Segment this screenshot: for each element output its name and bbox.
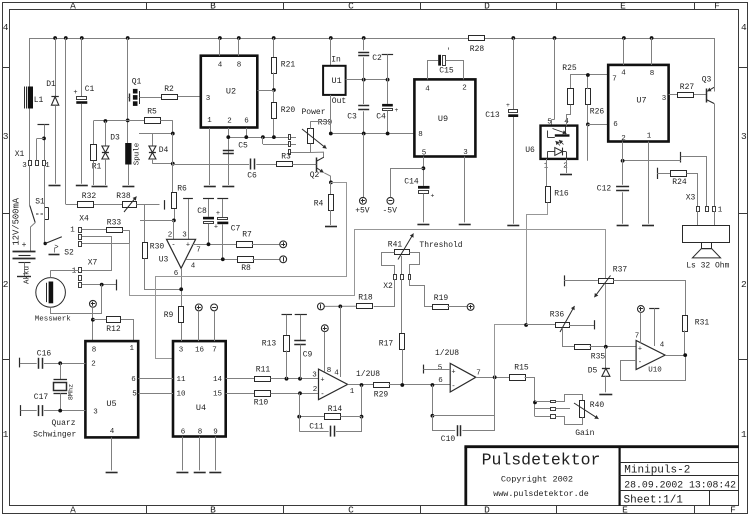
ground below C13 xyxy=(507,225,519,227)
svg-text:4: 4 xyxy=(425,86,430,94)
capacitor C15 loop xyxy=(428,61,439,80)
supply terminal -5V xyxy=(387,197,394,204)
svg-text:3: 3 xyxy=(662,95,667,103)
supply terminal U4 pin7 xyxy=(211,304,218,311)
svg-text:8: 8 xyxy=(237,62,242,70)
wire U2 pin4 to rail xyxy=(219,38,221,56)
svg-text:4: 4 xyxy=(660,342,665,350)
wire X4 pin2 to X7 pin1 loop xyxy=(82,237,112,271)
capacitor C7 electrolytic xyxy=(217,198,228,200)
ground below R1 D3 xyxy=(92,186,108,188)
wire U6 pin1 down to R16 xyxy=(546,159,548,187)
op-amp U8b xyxy=(450,363,476,392)
svg-text:7: 7 xyxy=(612,76,617,84)
svg-text:3: 3 xyxy=(182,232,187,240)
svg-text:7: 7 xyxy=(212,347,217,355)
battery Akku cells xyxy=(13,251,36,253)
svg-text:D1: D1 xyxy=(46,80,56,89)
svg-text:C4: C4 xyxy=(376,113,386,122)
quartz crystal 8MHz xyxy=(60,363,62,379)
svg-text:28.09.2002 13:08:42: 28.09.2002 13:08:42 xyxy=(624,479,736,490)
U6 phototransistor xyxy=(547,131,549,138)
resistor R7 xyxy=(237,242,253,248)
node R6/R30/U3 pin2 xyxy=(172,219,176,223)
svg-text:4: 4 xyxy=(3,22,9,33)
terminal circle plus R19 xyxy=(467,304,474,311)
wire U8b output up to R36 net xyxy=(495,325,527,378)
wire R12 to U5 pin1 xyxy=(121,320,134,342)
feedback loop with C10 xyxy=(432,385,434,416)
IC U5 xyxy=(85,341,138,437)
ground below C14 xyxy=(417,224,429,226)
svg-text:R29: R29 xyxy=(374,391,389,400)
wire R30 bottom to U3 output node xyxy=(145,259,182,290)
wire X4 pin1 to R33 xyxy=(82,229,107,231)
svg-text:2: 2 xyxy=(563,163,568,171)
stub bar right of R36 xyxy=(569,325,594,327)
wire U10 output xyxy=(665,355,685,357)
svg-text:+: + xyxy=(22,241,27,250)
wire gate rail down to Spule xyxy=(127,120,129,143)
svg-text:Minipuls-2: Minipuls-2 xyxy=(624,464,690,476)
resistor R2 xyxy=(162,95,178,100)
svg-text:S1: S1 xyxy=(35,198,45,207)
svg-text:7: 7 xyxy=(196,247,201,255)
resistor R3 xyxy=(277,162,293,167)
frame column dividers top margin xyxy=(146,3,148,10)
svg-text:C8: C8 xyxy=(197,207,207,216)
svg-text:C10: C10 xyxy=(441,435,456,444)
svg-text:5: 5 xyxy=(132,391,137,399)
wire U2 pin1 to ground xyxy=(209,128,211,185)
speaker Ls 32 Ohm wiring xyxy=(697,211,699,225)
svg-text:16: 16 xyxy=(195,347,205,355)
svg-text:Gain: Gain xyxy=(575,429,594,438)
supply terminal U10 xyxy=(638,306,645,313)
svg-text:8: 8 xyxy=(327,367,332,375)
svg-text:4: 4 xyxy=(334,370,339,378)
svg-text:+: + xyxy=(186,242,190,250)
svg-text:R6: R6 xyxy=(177,185,187,194)
svg-text:-: - xyxy=(638,359,642,367)
svg-text:R28: R28 xyxy=(470,45,485,54)
wire U1 out down to rail xyxy=(330,95,332,134)
svg-text:4: 4 xyxy=(218,62,223,70)
svg-text:Q3: Q3 xyxy=(702,76,712,85)
svg-text:-: - xyxy=(320,391,324,399)
svg-text:X1: X1 xyxy=(15,150,25,159)
svg-text:7: 7 xyxy=(476,370,481,378)
svg-text:6: 6 xyxy=(613,121,618,129)
svg-text:C14: C14 xyxy=(404,178,419,187)
terminal circle R8 xyxy=(280,256,287,263)
X1 antenna stub with bar xyxy=(38,124,50,126)
wire R37 to R31 xyxy=(613,281,685,316)
wire U5 pin4 to ground xyxy=(111,437,113,470)
ground below D5 xyxy=(599,394,612,396)
resistor R10 xyxy=(255,391,271,397)
svg-text:1: 1 xyxy=(350,388,355,396)
svg-text:X4: X4 xyxy=(79,215,89,224)
svg-text:R4: R4 xyxy=(314,200,324,209)
stub bar left of R37 xyxy=(564,275,566,286)
svg-text:R5: R5 xyxy=(147,108,157,117)
ground below R4 xyxy=(325,226,337,228)
wire R41 wiper to X2 pin2 xyxy=(401,256,403,275)
wire Q2 emitter long route to U4 xyxy=(156,183,347,359)
svg-text:R41: R41 xyxy=(388,241,403,250)
svg-text:-: - xyxy=(171,242,175,250)
svg-text:8: 8 xyxy=(198,429,203,437)
wire U2 pin2 down through C5 xyxy=(228,128,230,185)
svg-text:3: 3 xyxy=(312,372,317,380)
svg-text:X3: X3 xyxy=(686,194,696,203)
svg-text:+: + xyxy=(73,89,77,97)
stub U3 pin3 with bar xyxy=(183,198,193,200)
inductor L1 xyxy=(29,38,31,87)
ground below U5 pin4 xyxy=(106,472,118,474)
title block right dividers xyxy=(620,462,739,464)
svg-text:1: 1 xyxy=(718,207,723,215)
svg-text:A: A xyxy=(70,505,76,516)
wire R15 to gain connector xyxy=(525,378,535,417)
wire U2 pin6 down xyxy=(246,128,248,137)
optocoupler U6 xyxy=(554,38,556,120)
svg-text:Spule: Spule xyxy=(134,143,142,166)
resistor R4 xyxy=(330,182,332,194)
svg-text:C13: C13 xyxy=(485,111,500,120)
svg-text:3: 3 xyxy=(93,409,98,417)
wire X7 pin1 to meter top xyxy=(51,270,79,272)
svg-text:R11: R11 xyxy=(256,366,271,375)
svg-text:Pulsdetektor: Pulsdetektor xyxy=(482,451,601,470)
svg-text:11: 11 xyxy=(176,376,186,384)
svg-text:R19: R19 xyxy=(434,294,449,303)
svg-text:8: 8 xyxy=(92,347,97,355)
ground below Spule xyxy=(122,186,134,188)
resistor R33 xyxy=(107,228,123,233)
svg-text:In: In xyxy=(331,56,341,65)
svg-text:R9: R9 xyxy=(164,311,174,320)
capacitor C6 xyxy=(173,164,249,166)
svg-text:U1: U1 xyxy=(331,76,341,86)
svg-text:3: 3 xyxy=(741,131,747,142)
resistor R29 xyxy=(374,383,390,388)
svg-text:S2: S2 xyxy=(64,249,74,258)
svg-text:U3: U3 xyxy=(159,256,169,265)
wire X7 pin3 stub with bar xyxy=(82,284,117,286)
svg-text:+: + xyxy=(214,224,218,232)
wire X2 pin2 down to R17 xyxy=(401,279,403,333)
U6 LED xyxy=(555,148,563,156)
wire meter bottom loop xyxy=(51,285,102,314)
svg-text:R26: R26 xyxy=(590,108,605,117)
wire audio net to R36 xyxy=(526,324,555,326)
svg-text:D: D xyxy=(484,1,490,12)
supply terminal U4 pin16 xyxy=(195,304,202,311)
wire top supply rail xyxy=(30,38,469,40)
svg-text:B: B xyxy=(210,1,216,12)
resistor R13 with stub xyxy=(282,314,293,316)
wire R29 to U8b xyxy=(389,384,451,386)
wire U7 pin1 to ground xyxy=(648,142,650,224)
wires U4 pins 6 8 9 to ground xyxy=(182,437,184,471)
svg-text:R17: R17 xyxy=(379,340,394,349)
svg-text:D4: D4 xyxy=(159,146,169,155)
regulator U1 xyxy=(330,38,332,66)
ground below U2 pin1 xyxy=(204,186,216,188)
wire stub to X3 pin2 xyxy=(681,157,707,207)
svg-text:Schwinger: Schwinger xyxy=(33,431,76,440)
meter Messwerk xyxy=(36,278,66,308)
wire R19 to terminal xyxy=(448,306,467,308)
svg-text:A: A xyxy=(70,1,76,12)
svg-text:Q1: Q1 xyxy=(132,78,142,87)
svg-text:C: C xyxy=(348,505,354,516)
wire R26 bottom to U7 pin6 xyxy=(587,105,589,125)
svg-text:R10: R10 xyxy=(254,399,269,408)
node R21/R20/U2 junction xyxy=(272,88,276,92)
svg-text:1: 1 xyxy=(647,133,652,141)
IC U2 xyxy=(201,56,257,128)
wires U5 to U4 xyxy=(138,378,173,380)
svg-text:C7: C7 xyxy=(231,225,241,234)
switch S2 xyxy=(44,165,46,243)
svg-text:B: B xyxy=(210,505,216,516)
ground below C12 xyxy=(617,225,629,227)
svg-text:Ls 32 Ohm: Ls 32 Ohm xyxy=(686,262,729,271)
svg-text:15: 15 xyxy=(213,391,223,399)
svg-text:R18: R18 xyxy=(358,294,373,303)
svg-text:R30: R30 xyxy=(150,243,165,252)
wire U3 lower output to R8 xyxy=(186,259,238,261)
wire R36 body to R35 xyxy=(563,329,576,347)
wire R38 to R30 top xyxy=(137,204,145,206)
wire U2 pin8 to rail xyxy=(238,38,240,56)
svg-text:R37: R37 xyxy=(613,266,628,275)
svg-text:10: 10 xyxy=(176,391,186,399)
wire R16 to audio net xyxy=(527,203,548,325)
frame row dividers right margin xyxy=(739,67,748,69)
resistor R31 xyxy=(683,316,688,332)
svg-text:D: D xyxy=(484,505,490,516)
svg-text:1/2U8: 1/2U8 xyxy=(356,370,380,379)
svg-text:Akku: Akku xyxy=(24,266,32,284)
svg-text:R15: R15 xyxy=(514,364,529,373)
svg-text:1: 1 xyxy=(130,345,135,353)
svg-text:R20: R20 xyxy=(281,106,296,115)
svg-text:Power: Power xyxy=(301,108,325,117)
svg-text:Messwerk: Messwerk xyxy=(35,316,72,324)
svg-text:4: 4 xyxy=(110,428,115,436)
wire rail down to Q3 and X3 pin3 xyxy=(714,38,716,92)
svg-text:1: 1 xyxy=(70,227,75,235)
feedback capacitor C11 xyxy=(299,431,329,433)
svg-text:1: 1 xyxy=(72,268,77,276)
resistor R9 xyxy=(181,307,183,341)
svg-text:5: 5 xyxy=(547,119,552,127)
wire R41 right loop to X2 pin3 xyxy=(409,253,419,275)
svg-text:R27: R27 xyxy=(680,83,695,92)
resistor R27 xyxy=(669,94,677,96)
resistor R11 xyxy=(255,377,271,382)
svg-text:C12: C12 xyxy=(597,185,612,194)
svg-text:U2: U2 xyxy=(226,87,236,97)
capacitor C5 xyxy=(223,150,234,152)
wire U3 pin6 down to R9 xyxy=(181,268,183,307)
feedback resistor R14 xyxy=(361,385,363,417)
resistor R35 xyxy=(575,345,591,350)
wire U3 upper output to R7 xyxy=(192,244,237,246)
svg-text:R32: R32 xyxy=(82,192,97,201)
svg-text:+: + xyxy=(431,193,435,200)
capacitor C3 xyxy=(358,105,369,107)
svg-text:R13: R13 xyxy=(262,340,277,349)
svg-text:Quarz: Quarz xyxy=(51,419,75,428)
resistor R19 xyxy=(433,305,449,310)
ground below U7 pin1 xyxy=(642,225,654,227)
wire X4 pin3 join xyxy=(82,243,129,245)
svg-text:F: F xyxy=(714,1,720,12)
U10 feedback loop xyxy=(621,355,686,380)
svg-text:Out: Out xyxy=(332,97,346,106)
svg-text:2: 2 xyxy=(741,279,747,290)
resistor R17 xyxy=(400,334,405,350)
resistor R6 xyxy=(172,193,177,209)
speaker symbol xyxy=(683,226,730,243)
svg-text:8: 8 xyxy=(650,70,655,78)
svg-text:8: 8 xyxy=(418,131,423,139)
stub R38 wiper to bar xyxy=(140,220,145,222)
wire R24 to X3 pin1 xyxy=(687,174,698,207)
resistor R26 xyxy=(586,89,591,105)
wire U9 pin3 to ground xyxy=(464,157,466,223)
terminal circle plus R7 xyxy=(280,241,287,248)
svg-text:2: 2 xyxy=(3,279,9,290)
wire long audio net X4 to U10 input xyxy=(130,230,606,347)
wire U8a output xyxy=(348,384,374,386)
wire U7 pin2 down through C12 xyxy=(622,142,624,185)
capacitor C9 with stub xyxy=(295,314,307,316)
capacitor C4 electrolytic xyxy=(382,104,393,107)
wire R26 node down to audio coupling xyxy=(587,124,589,160)
resistor R20 xyxy=(273,90,275,103)
svg-text:9: 9 xyxy=(213,429,218,437)
IC U4 xyxy=(173,341,226,436)
svg-text:C16: C16 xyxy=(37,350,52,359)
svg-text:R40: R40 xyxy=(590,401,605,410)
svg-text:R38: R38 xyxy=(116,192,131,201)
svg-text:R2: R2 xyxy=(164,85,174,94)
svg-text:R21: R21 xyxy=(281,61,296,70)
svg-text:R16: R16 xyxy=(554,190,569,199)
ground below C1 xyxy=(76,185,88,187)
resistor R15 xyxy=(510,375,526,381)
svg-text:1: 1 xyxy=(741,429,747,440)
svg-text:C9: C9 xyxy=(303,351,313,360)
svg-text:+: + xyxy=(506,102,510,109)
svg-text:R14: R14 xyxy=(328,405,343,414)
IC U9 xyxy=(414,79,475,156)
ground below U9 pin3 xyxy=(459,224,471,226)
svg-text:R3: R3 xyxy=(281,153,291,162)
svg-text:+: + xyxy=(638,346,642,354)
wire R18 left to terminal xyxy=(324,305,356,307)
svg-text:R25: R25 xyxy=(562,64,577,73)
IC U7 xyxy=(608,65,668,142)
wire X2 pin3 to R19 xyxy=(410,279,433,306)
svg-text:C1: C1 xyxy=(85,85,95,94)
resistor R16 xyxy=(546,187,551,203)
svg-text:6: 6 xyxy=(244,118,249,126)
wires U4 pins 14 15 to R11 R10 xyxy=(226,378,255,380)
resistor R30 xyxy=(144,220,146,243)
diode D1 xyxy=(55,38,57,96)
svg-text:>: > xyxy=(54,244,58,252)
capacitor C13 electrolytic xyxy=(513,38,515,110)
svg-text:U10: U10 xyxy=(648,367,662,375)
svg-text:C6: C6 xyxy=(247,172,257,181)
svg-text:C3: C3 xyxy=(347,113,357,122)
svg-text:8Mhz: 8Mhz xyxy=(68,384,76,400)
wire U6 pin2 to ground xyxy=(566,159,568,173)
svg-text:R8: R8 xyxy=(241,264,251,273)
svg-text:5: 5 xyxy=(438,365,443,373)
svg-text:3: 3 xyxy=(3,131,9,142)
svg-text:C15: C15 xyxy=(439,67,454,76)
ground below C5 xyxy=(222,186,234,188)
wire X2 pin1 to R18 xyxy=(374,279,395,306)
svg-text:U7: U7 xyxy=(636,96,646,106)
wire L1 to X1 pin xyxy=(29,109,31,161)
wire S1 to battery xyxy=(31,223,36,252)
title block border xyxy=(464,447,467,506)
resistor R18 xyxy=(357,304,373,309)
svg-text:2: 2 xyxy=(168,232,173,240)
resistor R1 xyxy=(91,145,97,161)
svg-text:C11: C11 xyxy=(309,423,324,432)
frame row dividers left margin xyxy=(3,67,10,69)
svg-text:E: E xyxy=(620,1,626,12)
svg-text:X2: X2 xyxy=(383,282,393,291)
svg-text:www.pulsdetektor.de: www.pulsdetektor.de xyxy=(493,489,589,499)
svg-text:+: + xyxy=(395,107,399,114)
svg-text:U4: U4 xyxy=(196,403,206,413)
svg-text:Copyright 2002: Copyright 2002 xyxy=(501,475,573,485)
wire tap down to op-amp U8a top xyxy=(340,306,342,377)
wire net R1/D3 tops xyxy=(93,121,95,146)
svg-text:1/2U8: 1/2U8 xyxy=(435,349,459,358)
svg-text:R24: R24 xyxy=(672,178,687,187)
svg-text:1: 1 xyxy=(207,117,212,125)
wire net pin2/pin6 to jumper X5 xyxy=(228,137,288,139)
wire U7 pin4 to rail xyxy=(623,38,625,65)
jumper pins near R39 xyxy=(289,135,291,140)
svg-text:4: 4 xyxy=(741,22,747,33)
svg-text:6: 6 xyxy=(131,376,136,384)
wire R35 to U10 plus xyxy=(590,346,637,348)
resistor R32 xyxy=(78,202,94,208)
svg-text:3: 3 xyxy=(206,95,211,103)
svg-text:7: 7 xyxy=(635,333,640,341)
svg-text:14: 14 xyxy=(213,376,223,384)
resistor R28 in rail xyxy=(469,36,485,41)
svg-text:2: 2 xyxy=(91,361,96,369)
svg-text:D3: D3 xyxy=(110,134,120,143)
supply terminal above R12 xyxy=(90,300,97,307)
svg-text:Threshold: Threshold xyxy=(419,241,462,250)
svg-text:1: 1 xyxy=(45,162,50,170)
